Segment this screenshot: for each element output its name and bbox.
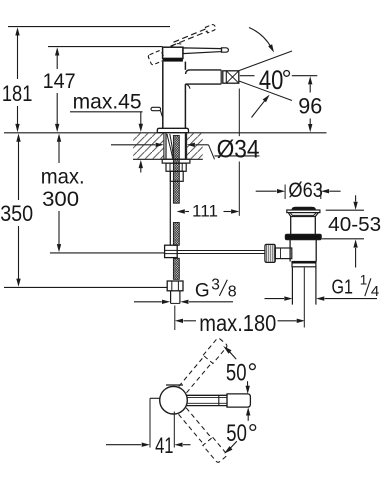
svg-text:max.45: max.45 <box>73 90 142 113</box>
svg-text:50: 50 <box>226 420 247 447</box>
svg-text:8: 8 <box>228 283 237 300</box>
svg-text:300: 300 <box>42 188 79 211</box>
svg-text:40-53: 40-53 <box>328 214 381 236</box>
svg-text:50: 50 <box>226 359 247 386</box>
svg-text:111: 111 <box>192 201 218 220</box>
svg-text:147: 147 <box>43 70 76 93</box>
svg-text:350: 350 <box>0 201 33 226</box>
svg-text:4: 4 <box>371 283 379 300</box>
svg-text:40: 40 <box>259 65 284 95</box>
svg-text:max.: max. <box>41 166 85 189</box>
svg-text:max.180: max.180 <box>199 310 276 336</box>
svg-text:Ø63: Ø63 <box>288 179 323 202</box>
svg-text:3: 3 <box>211 277 220 294</box>
svg-text:41: 41 <box>155 433 173 458</box>
svg-text:96: 96 <box>298 94 322 119</box>
svg-text:G: G <box>195 280 210 301</box>
svg-text:G1: G1 <box>332 277 354 299</box>
svg-text:181: 181 <box>2 81 33 106</box>
svg-text:Ø34: Ø34 <box>217 135 260 163</box>
svg-text:1: 1 <box>360 272 368 287</box>
